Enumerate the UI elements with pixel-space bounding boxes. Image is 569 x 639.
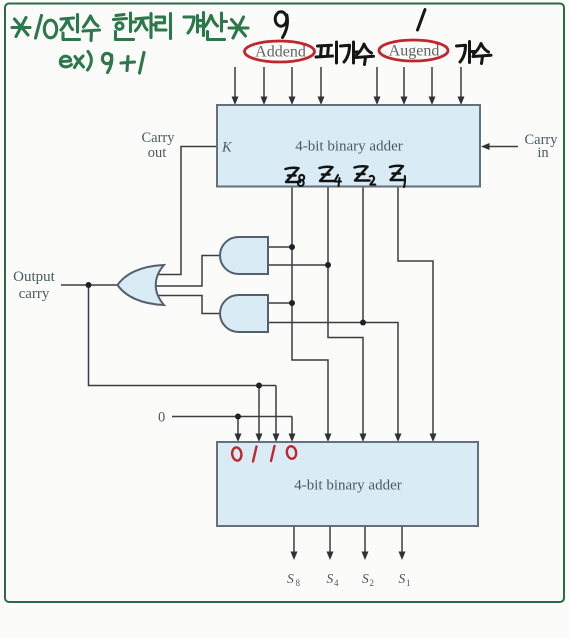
svg-text:0: 0 — [158, 410, 165, 426]
svg-text:2: 2 — [370, 578, 375, 588]
svg-text:K: K — [221, 140, 233, 156]
svg-text:out: out — [148, 145, 167, 161]
svg-text:in: in — [537, 145, 549, 161]
svg-text:8: 8 — [296, 578, 301, 588]
svg-text:Augend: Augend — [389, 43, 440, 60]
svg-text:S: S — [327, 571, 334, 586]
svg-text:Output: Output — [13, 269, 56, 285]
svg-text:S: S — [399, 571, 406, 586]
svg-text:4: 4 — [334, 578, 339, 588]
svg-text:S: S — [287, 571, 294, 586]
svg-text:Addend: Addend — [255, 44, 306, 61]
svg-text:carry: carry — [19, 286, 50, 302]
svg-text:4-bit binary adder: 4-bit binary adder — [295, 139, 402, 155]
svg-text:1: 1 — [406, 578, 411, 588]
svg-text:4-bit binary adder: 4-bit binary adder — [294, 478, 401, 494]
svg-text:Carry: Carry — [141, 130, 175, 146]
svg-text:S: S — [362, 571, 369, 586]
